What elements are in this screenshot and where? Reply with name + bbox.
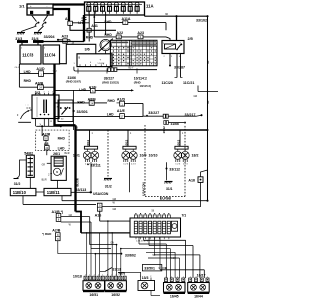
wire key to box (30, 109, 32, 111)
wire 11C/3 down (15, 64, 20, 69)
thick bus segment upper-left B (33, 40, 44, 43)
ground 31/2 left (14, 182, 21, 186)
battery 1/1 (27, 4, 53, 15)
label 18/2 (192, 154, 199, 158)
label 10/114 (134, 76, 151, 88)
svg-text:1: 1 (89, 275, 90, 277)
svg-text:10/11: 10/11 (86, 140, 90, 147)
svg-text:7/1: 7/1 (182, 213, 187, 217)
wire A2R feed (42, 126, 47, 155)
wire cluster out4 (159, 237, 205, 278)
wire A1/D 2 in (117, 103, 144, 116)
svg-text:BL/GR: BL/GR (76, 178, 80, 186)
ignition switch 3/2 label (35, 91, 40, 95)
wire cluster out2 (149, 237, 193, 278)
connector pin table (110, 40, 157, 66)
ground 31/4 (32, 33, 43, 42)
connector A41 (87, 24, 98, 32)
svg-text:RHD: RHD (24, 79, 32, 83)
label EU/GB (160, 197, 172, 201)
wire A1/E branch (55, 115, 144, 117)
svg-text:33/102: 33/102 (196, 19, 207, 23)
svg-text:33/217: 33/217 (185, 113, 196, 117)
bulb cluster 16/52 (105, 275, 127, 297)
wire lamp bus (74, 129, 208, 131)
connector A1/D (36, 67, 45, 77)
bulb unit top pins (134, 213, 170, 218)
connector A1/F (79, 85, 97, 93)
svg-text:1: 1 (35, 92, 36, 94)
wire to 33/217 (143, 115, 163, 117)
wire A4 down (70, 25, 116, 30)
wire ignition to thick (61, 125, 76, 127)
svg-text:1: 1 (177, 276, 178, 278)
svg-text:5 10/12: 5 10/12 (98, 63, 106, 65)
wire 13/3 down (151, 291, 160, 296)
ground label 33/102 (196, 15, 209, 22)
connector A22 (116, 31, 123, 39)
svg-text:RHD: RHD (58, 136, 66, 140)
svg-text:A23: A23 (62, 35, 69, 39)
svg-text:31/1: 31/1 (166, 187, 173, 191)
wire bc3 (95, 253, 97, 276)
ignition contact box (58, 100, 73, 122)
svg-text:1: 1 (111, 275, 112, 277)
svg-text:A23: A23 (137, 31, 144, 35)
svg-text:16/45: 16/45 (170, 295, 179, 299)
connector A2/R (42, 132, 51, 140)
label BL/Y (129, 68, 134, 70)
svg-text:2: 2 (150, 276, 151, 278)
label 30 (165, 12, 168, 16)
bulb cluster 16/45 (164, 276, 186, 298)
svg-text:10/114:2: 10/114:2 (134, 76, 147, 80)
wire fuse2 down (93, 12, 95, 30)
fuse box 11A (85, 2, 154, 15)
gauge clock (99, 39, 113, 54)
bulb unit bottom pins (136, 237, 169, 243)
ground label 33/501 (142, 265, 161, 271)
svg-text:A11A: A11A (122, 17, 131, 21)
svg-text:10/115:2): 10/115:2) (140, 84, 151, 88)
wire bc7 (116, 244, 118, 276)
svg-text:BL/R: BL/R (65, 153, 70, 155)
label 33/111 (87, 163, 101, 167)
component 54/62 (26, 155, 34, 177)
wire 11B/10 down (23, 196, 96, 205)
wire LHD through A11A (94, 23, 166, 31)
wire 31/66 stub (164, 121, 186, 125)
wire relay pin down to 33/287 (169, 54, 171, 67)
switch 31/13 (100, 267, 125, 274)
svg-text:26/1: 26/1 (53, 152, 60, 156)
wire lamp3 ground (165, 162, 167, 180)
connector 11B/11 (44, 188, 71, 195)
svg-text:1 2 3: 1 2 3 (131, 164, 137, 166)
connector A11A (122, 17, 131, 25)
connector A16 (95, 203, 102, 217)
connector A16 right (188, 177, 203, 183)
dashed box lhd rhd (36, 130, 69, 151)
wire thick main vertical (74, 125, 76, 211)
label 10/12 rotated (124, 139, 128, 147)
svg-text:1: 1 (116, 275, 117, 277)
wire ignition bottom pins (36, 119, 56, 127)
wire 11C/21 exit right (198, 86, 218, 92)
label 10/12 rotated c (162, 126, 166, 134)
svg-text:10/9: 10/9 (140, 154, 147, 158)
wire label Y-GR (171, 258, 177, 260)
wire bc1 (86, 232, 88, 276)
component 54/62 label (24, 152, 33, 156)
wire right vertical (207, 16, 209, 201)
svg-text:1 2 3: 1 2 3 (183, 164, 189, 166)
label 10/12 rotated b (176, 139, 180, 147)
svg-text:1: 1 (39, 92, 40, 94)
connector A2/B (42, 229, 61, 241)
wire under instrument (74, 67, 157, 71)
splice hash marks (82, 17, 87, 20)
svg-text:1: 1 (166, 276, 167, 278)
wire to 16/45 a (139, 237, 166, 278)
bulb unit 7/1 box (130, 213, 186, 237)
svg-text:: : :: : : : (26, 104, 30, 107)
wire battery feed 2 (53, 9, 69, 21)
wire bus y41 (44, 40, 90, 42)
svg-text:16/44: 16/44 (194, 295, 203, 299)
svg-text:10/12: 10/12 (124, 139, 128, 147)
label LHD 4 (107, 112, 114, 116)
wire 11B/11 down (62, 196, 209, 202)
svg-text:1 2 3: 1 2 3 (123, 164, 129, 166)
svg-text:(RHD 31/67): (RHD 31/67) (66, 80, 81, 84)
svg-text:EU/GB: EU/GB (160, 197, 172, 201)
svg-text:16/52: 16/52 (111, 293, 120, 297)
svg-text:A22: A22 (117, 31, 124, 35)
wire 54/62 left ground (14, 160, 27, 179)
svg-text:1: 1 (183, 276, 184, 278)
wire bus drop to 11C/4 (37, 43, 39, 45)
svg-text:11C/3: 11C/3 (22, 53, 34, 58)
wire A4 to A41 (72, 22, 89, 24)
svg-text:11C/4: 11C/4 (44, 53, 56, 58)
wire to 16/45 d (148, 258, 180, 278)
svg-text:GR: GR (69, 215, 73, 217)
label USA/CDN rotated (141, 182, 145, 195)
svg-text:1: 1 (52, 92, 53, 94)
svg-text:33/501: 33/501 (144, 267, 155, 271)
label 10/11 rotated (86, 140, 90, 147)
instrument box (77, 54, 112, 67)
label 10/9 (140, 154, 147, 158)
wire to 16/45 b (121, 249, 171, 278)
wire LHD A1/D (19, 67, 54, 74)
svg-text:18/2: 18/2 (192, 154, 199, 158)
connector A8 (44, 142, 49, 150)
wire battery to clamps (32, 15, 49, 22)
label EL/GC rotated (76, 178, 80, 186)
wire label GR 1 (113, 198, 117, 201)
wire A16 right path (102, 170, 207, 207)
wire 26/1 down (57, 180, 59, 188)
bulb unit slots (134, 221, 177, 234)
svg-text:10/12: 10/12 (162, 126, 166, 134)
svg-text:*) RHD: *) RHD (42, 232, 51, 236)
connector bumps under table (108, 68, 117, 72)
svg-text:GR: GR (194, 95, 198, 98)
svg-text:31/2: 31/2 (105, 185, 112, 189)
bulb cluster 16/44 (188, 276, 210, 298)
wire RHD A8/B (19, 74, 54, 88)
svg-text:A4: A4 (65, 17, 70, 21)
wire thick to cluster (81, 232, 130, 234)
wire A16 down (100, 211, 130, 221)
wire RHD through A22 A23 (94, 30, 138, 37)
label gn (111, 243, 115, 245)
lamp group 10/9 10/12 (122, 130, 137, 166)
connector A1/B (52, 210, 65, 222)
wire 11B/11 right (71, 191, 90, 193)
wire 33/204 to A23 (58, 40, 70, 42)
svg-text:GR: GR (42, 164, 46, 166)
label LHD (78, 21, 85, 25)
component 3/6 label (85, 48, 90, 52)
wire relay to 11C/21 (181, 54, 183, 78)
svg-text:1: 1 (207, 276, 208, 278)
battery clamp terminals (35, 22, 46, 26)
connector A1/D 2 (117, 98, 126, 107)
connector box 11C/3 (20, 45, 41, 64)
svg-text:1 2 3 4 5 6 7 8: 1 2 3 4 5 6 7 8 (136, 241, 148, 243)
svg-text:RHD: RHD (108, 99, 116, 103)
wire lamp2 ground (129, 162, 131, 192)
label 10/1 (73, 154, 80, 158)
relay 2/5 label (188, 37, 193, 41)
label RHD 3 (24, 79, 32, 83)
connector pair on wire (163, 114, 168, 118)
fuse box internal bus (86, 3, 142, 5)
svg-text:11C/21: 11C/21 (183, 81, 194, 85)
label LHD 5 (58, 146, 65, 150)
wire 26/1 pin2 (48, 173, 52, 177)
connector 11B/10 (10, 188, 36, 195)
dashed divider USA/CDN (107, 130, 109, 177)
label stubs (78, 68, 137, 73)
svg-text:1: 1 (94, 275, 95, 277)
relay 2/5 (162, 41, 184, 59)
label 33/112 (169, 168, 180, 172)
wire to 16/45 c (146, 252, 175, 278)
wire fuse1 to A41 (88, 11, 90, 40)
svg-text:10/18: 10/18 (73, 275, 82, 279)
dashed box EU/GB (145, 125, 185, 197)
svg-text:31/2: 31/2 (14, 182, 21, 186)
svg-text:33/602: 33/602 (125, 253, 136, 257)
wire 26/1 left pin (42, 163, 52, 166)
wire A2/B down (58, 241, 96, 254)
svg-text:11B/11: 11B/11 (47, 190, 61, 195)
label LHD 3 (24, 70, 31, 74)
wire battery feed to fuse box (53, 3, 85, 5)
svg-text:11A: 11A (146, 4, 154, 9)
svg-text:10/17: 10/17 (197, 274, 206, 278)
svg-text:31/66: 31/66 (68, 76, 77, 80)
svg-text:1: 1 (107, 275, 108, 277)
svg-text:33/204: 33/204 (44, 35, 55, 39)
wire A1/F branch (55, 89, 135, 91)
wire bc6 (111, 232, 113, 276)
svg-text:l ll lll: l ll lll (26, 108, 31, 110)
svg-text:USA/CDN: USA/CDN (141, 182, 145, 195)
svg-text:GR: GR (208, 60, 210, 64)
svg-text:1: 1 (190, 276, 191, 278)
svg-text:BL/R: BL/R (42, 179, 47, 181)
svg-text:30: 30 (165, 12, 168, 16)
svg-text:GR: GR (208, 100, 210, 104)
wire clamp to ground 31/4 (38, 26, 44, 32)
svg-text:16/51: 16/51 (89, 293, 98, 297)
ignition switch box (32, 92, 60, 119)
battery 1/1 label (19, 4, 25, 9)
svg-text:GR: GR (113, 198, 117, 201)
wire label 58 (153, 254, 156, 257)
svg-text:1: 1 (48, 92, 49, 94)
label USA/CDN (93, 192, 109, 196)
label 10/10 (149, 154, 158, 158)
wire bc4 (99, 221, 101, 276)
splice 33/301 (72, 90, 87, 130)
wire 13/3 feed (125, 272, 141, 278)
svg-text:A16: A16 (188, 179, 195, 183)
svg-text:(RHD: (RHD (134, 80, 141, 84)
label 33/217 (185, 113, 196, 117)
wire dots line (36, 125, 84, 127)
svg-text:(RHD 33/222): (RHD 33/222) (102, 80, 119, 84)
ground 31/3 (15, 33, 25, 42)
label 33/227 right (146, 111, 159, 116)
svg-text:+: + (100, 58, 102, 62)
svg-text:33/111: 33/111 (90, 163, 101, 167)
wire bc8 (120, 248, 122, 276)
wire cluster out3 (155, 237, 200, 278)
wire A8/B branch (55, 102, 108, 104)
svg-text:1: 1 (120, 275, 121, 277)
svg-text:1: 1 (85, 275, 86, 277)
bus label B2 (77, 128, 79, 130)
bulb cluster 16/51 (83, 275, 105, 297)
svg-text:RHD: RHD (86, 36, 94, 40)
label 10/18 (73, 275, 82, 279)
wire lamp1 ground (90, 162, 92, 193)
label GR right (194, 95, 198, 98)
wire 54/62 down (29, 177, 31, 188)
label LHD 2 (105, 20, 112, 24)
connector A1/E (117, 109, 126, 119)
svg-text:33/113: 33/113 (76, 188, 87, 192)
label 31/66 right (171, 122, 180, 126)
wire clamp to ground 31/3 (21, 26, 37, 32)
svg-text:11B/10: 11B/10 (13, 190, 27, 195)
svg-text:33/112: 33/112 (169, 168, 180, 172)
svg-text:2/5: 2/5 (188, 37, 193, 41)
wire fuse box out right (145, 14, 208, 16)
wire A23 to relay coil (143, 37, 170, 41)
wire bc4b (99, 233, 101, 276)
ground label 33/204 (44, 35, 59, 41)
svg-text:A2/B: A2/B (52, 229, 61, 233)
svg-text:10/1: 10/1 (73, 154, 80, 158)
component 26/1 label (53, 152, 70, 156)
svg-text:1: 1 (124, 275, 125, 277)
key position arc (17, 104, 31, 123)
connector box 11C/4 (43, 45, 60, 64)
svg-text:1 2 3: 1 2 3 (175, 164, 181, 166)
wire bus drop to 11C/3 (21, 43, 23, 45)
svg-text:1/1: 1/1 (19, 4, 25, 9)
svg-text:LHD: LHD (58, 146, 65, 150)
lamp group 18/2 (174, 130, 189, 166)
connector label 11C/20 (162, 81, 173, 85)
svg-text:11C/20: 11C/20 (162, 81, 173, 85)
label 58 upper (152, 210, 155, 212)
label 33/113 (76, 188, 92, 193)
label RHD 4 (108, 99, 116, 103)
svg-text:10/10: 10/10 (149, 154, 158, 158)
svg-text:33/227: 33/227 (104, 76, 114, 80)
connector label 11C/21 (183, 81, 194, 85)
svg-text:LHD: LHD (107, 112, 114, 116)
label 33/227 rhd (102, 76, 119, 84)
ground label 33/287 (174, 66, 185, 70)
svg-text:A1/E: A1/E (117, 109, 126, 113)
label 31/66 (66, 76, 81, 84)
wire 11B gap (36, 191, 44, 193)
wire fuse box drop thick (83, 15, 85, 42)
svg-text:10/12: 10/12 (176, 139, 180, 147)
svg-text:31/13: 31/13 (113, 267, 122, 271)
ground 31/1 (165, 182, 173, 192)
connector A8/B (35, 81, 44, 89)
ground 31/2 mid (104, 179, 112, 189)
lamp 13/3 (138, 276, 155, 291)
svg-text:1: 1 (102, 275, 103, 277)
wire feed to relay (175, 15, 177, 40)
wire label W 1 (113, 202, 116, 205)
wire thick bottom bend (76, 212, 82, 233)
label 10/17 (197, 274, 206, 278)
wire 33/602 (95, 253, 136, 258)
svg-text:31/66: 31/66 (171, 122, 180, 126)
connector A4 (65, 17, 72, 25)
instrument box pins (74, 63, 107, 67)
wire cluster out1 (144, 237, 186, 278)
svg-text:A16: A16 (95, 214, 102, 218)
thick bus segment upper-left A (17, 40, 28, 43)
wire label 1-GR a (208, 60, 210, 64)
wire bc2 (90, 249, 92, 276)
svg-text:-: - (47, 5, 48, 8)
wire bc5 (107, 220, 109, 275)
svg-text:33/227: 33/227 (148, 111, 159, 115)
svg-text:33/301: 33/301 (77, 110, 88, 114)
wire 11C/4 right loop (60, 43, 96, 64)
wire to 33/217 b (168, 114, 202, 116)
svg-text:BL-Y: BL-Y (129, 68, 134, 70)
svg-text:1: 1 (98, 275, 99, 277)
svg-text:1: 1 (44, 92, 45, 94)
svg-text:RHD: RHD (77, 100, 85, 104)
label RHD 2 (105, 33, 113, 37)
